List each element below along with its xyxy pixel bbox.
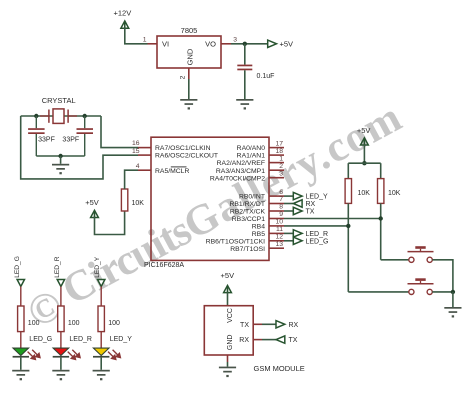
svg-text:7805: 7805 — [181, 26, 198, 35]
power flag +5V (pull-ups) — [357, 126, 371, 146]
pin name RB7/T1OSI — [230, 246, 265, 253]
pin 6 stub RB0 — [269, 189, 284, 196]
wire RX to port — [262, 339, 276, 341]
wire +5V to R4 — [95, 211, 125, 235]
svg-text:33PF: 33PF — [62, 137, 79, 144]
wire TX to port — [262, 323, 276, 325]
decorative watermark (not labelled further) — [18, 93, 412, 337]
pin 12 stub RB6 — [269, 234, 284, 241]
wire crystal top rail — [21, 115, 101, 117]
svg-text:RA2/AN2/VREF: RA2/AN2/VREF — [217, 160, 265, 167]
svg-text:RX: RX — [289, 322, 299, 329]
pin name RB1/RX/DT — [229, 201, 265, 208]
resistor 100 (LED_G) — [18, 306, 40, 332]
pin name RB3/CCP1 — [232, 216, 265, 223]
pin 16 stub RA7 — [132, 140, 151, 147]
svg-text:TX: TX — [240, 322, 249, 329]
svg-text:17: 17 — [275, 140, 283, 147]
node caps ground junction — [58, 154, 62, 158]
wire junction to C1 — [244, 44, 246, 65]
pin name VCC (GSM) — [227, 308, 234, 323]
ground under 7805 — [180, 99, 197, 110]
resistor R3 10K — [378, 179, 401, 204]
wire GSM GND to ground — [227, 362, 229, 367]
pin name RA1/AN1 — [237, 153, 266, 160]
pin 8 stub RB2 — [269, 204, 284, 211]
node RB3 junction — [379, 216, 383, 220]
svg-text:RB6/T1OSO/T1CKI: RB6/T1OSO/T1CKI — [206, 238, 265, 245]
svg-text:4: 4 — [136, 163, 140, 170]
svg-text:10K: 10K — [132, 200, 145, 207]
pin name RA5/MCLR — [155, 167, 189, 175]
wire R to LED_R — [60, 332, 62, 349]
svg-text:RX: RX — [239, 337, 249, 344]
capacitor C2 33PF — [28, 116, 55, 156]
wire LED_R to ground — [60, 358, 62, 370]
pin 17 stub RA0 — [269, 140, 284, 147]
svg-text:10: 10 — [275, 219, 283, 226]
wire pin12 to port — [284, 240, 293, 242]
svg-text:PIC16F628A: PIC16F628A — [144, 262, 184, 269]
pin name RB0/INT — [239, 194, 265, 201]
wire R3 down to button 1 — [380, 203, 382, 259]
regulator U2 7805 — [157, 26, 221, 68]
svg-text:RB1/RX/DT: RB1/RX/DT — [229, 201, 265, 208]
svg-text:+5V: +5V — [280, 40, 294, 49]
power flag +5V (MCLR) — [85, 198, 99, 219]
svg-text:1: 1 — [279, 155, 283, 162]
pin 1 stub of U2 — [143, 37, 157, 44]
ground under C1 — [236, 99, 253, 110]
resistor 100 (LED_R) — [58, 306, 80, 332]
svg-text:RB3/CCP1: RB3/CCP1 — [232, 216, 265, 223]
resistor R2 10K — [345, 179, 370, 204]
label LED_R — [69, 336, 92, 343]
svg-text:CRYSTAL: CRYSTAL — [42, 96, 76, 105]
wire to button 1 left — [381, 259, 409, 261]
ground under GSM — [219, 367, 236, 378]
svg-text:13: 13 — [275, 241, 283, 248]
pin 1 stub RA2 — [269, 155, 284, 162]
svg-text:7: 7 — [279, 196, 283, 203]
port LED_Y — [293, 192, 328, 200]
ground under crystal caps — [52, 164, 69, 175]
svg-text:LED_R: LED_R — [54, 256, 61, 277]
wire OSC1 to pin16 — [101, 116, 138, 148]
pin name TX (GSM) — [240, 322, 249, 329]
power flag +12V — [114, 9, 132, 30]
pin 13 stub RB7 — [269, 241, 284, 248]
wire resistor top rail — [348, 162, 380, 164]
port LED_R — [293, 230, 328, 238]
wire port to R (LED_G) — [20, 287, 22, 307]
pin 15 stub RA6 — [132, 148, 151, 155]
wire LED_Y to ground — [100, 358, 102, 370]
port TX — [293, 207, 314, 215]
svg-text:VI: VI — [162, 40, 169, 49]
wire pin11 to port — [284, 232, 293, 234]
svg-text:RA0/AN0: RA0/AN0 — [237, 145, 266, 152]
svg-text:11: 11 — [276, 226, 283, 233]
node buttons ground junction — [451, 290, 455, 294]
pin 3 stub of U2 — [221, 37, 237, 44]
ground under LED_G — [12, 370, 29, 381]
svg-text:100: 100 — [28, 320, 40, 327]
power flag +5V (GSM) — [221, 271, 235, 294]
pin name RB5 — [252, 231, 265, 238]
ground under LED_Y — [93, 370, 110, 381]
svg-text:TX: TX — [289, 337, 298, 344]
LED D_G — [13, 348, 40, 359]
svg-text:RA5/MCLR: RA5/MCLR — [155, 168, 189, 175]
svg-text:100: 100 — [68, 320, 80, 327]
svg-text:LED_R: LED_R — [306, 231, 329, 238]
wire U2 GND down — [188, 79, 190, 99]
svg-text:RA3/AN3/CMP1: RA3/AN3/CMP1 — [216, 168, 265, 175]
wire R to LED_G — [20, 332, 22, 349]
capacitor C1 0.1uF — [237, 65, 274, 80]
svg-text:6: 6 — [279, 189, 283, 196]
GSM module box — [204, 306, 253, 355]
pin stub GND (GSM) — [227, 355, 229, 362]
pin name RA2/AN2/VREF — [217, 160, 265, 167]
ground under buttons — [444, 307, 461, 318]
ground under LED_R — [52, 370, 69, 381]
svg-text:16: 16 — [132, 140, 140, 147]
svg-text:RB5: RB5 — [252, 231, 265, 238]
svg-text:LED_Y: LED_Y — [110, 336, 133, 343]
node OSC1 junction — [83, 114, 87, 118]
node +5V rail junction — [362, 161, 366, 165]
svg-text:2: 2 — [180, 75, 187, 79]
pin 2 stub of U2 — [180, 68, 189, 79]
svg-text:LED_Y: LED_Y — [94, 256, 101, 277]
port LED_G — [293, 237, 328, 245]
port LED_R (terminal) — [57, 280, 64, 287]
pin name RB2/TX/CK — [230, 209, 266, 216]
svg-text:+12V: +12V — [114, 9, 132, 18]
pin 4 stub RA5 — [136, 163, 151, 170]
svg-text:10K: 10K — [388, 190, 401, 197]
port LED_Y (terminal) — [98, 280, 105, 287]
wire C1 to ground — [244, 70, 246, 99]
svg-text:RX: RX — [306, 201, 316, 208]
node RB4 junction — [346, 224, 350, 228]
wire pin7 to port — [284, 203, 293, 205]
svg-text:LED_G: LED_G — [29, 336, 52, 343]
pin stub RX (GSM) — [253, 339, 262, 341]
wire +12V to 7805 VI — [125, 28, 148, 44]
pin 7 stub RB1 — [269, 196, 284, 203]
pin name RA7/OSC1/CLKIN — [155, 145, 211, 152]
label LED_G — [29, 336, 52, 343]
svg-text:LED_R: LED_R — [69, 336, 92, 343]
svg-text:LED_G: LED_G — [306, 238, 329, 245]
push button S1 — [408, 246, 434, 262]
wire caps bottom rail — [36, 155, 84, 157]
wire VO to +5V — [231, 43, 268, 45]
resistor R4 10K — [121, 189, 144, 211]
svg-text:0.1uF: 0.1uF — [257, 73, 275, 80]
wire to button 2 left — [348, 291, 408, 293]
svg-text:2: 2 — [279, 163, 283, 170]
node junction at C1 — [243, 42, 247, 46]
svg-text:3: 3 — [233, 37, 237, 44]
pin name RA0/AN0 — [237, 145, 266, 152]
wire R4 to pin4 — [125, 170, 138, 189]
svg-text:VCC: VCC — [227, 308, 234, 323]
wire caps rail to ground — [60, 156, 62, 164]
wire LED_G to ground — [20, 358, 22, 370]
wire +5V to GSM VCC — [227, 292, 229, 306]
resistor 100 (LED_Y) — [98, 306, 120, 332]
svg-text:+5V: +5V — [357, 126, 371, 135]
port LED_G (terminal) — [17, 280, 24, 287]
svg-text:LED_G: LED_G — [14, 256, 21, 278]
port label LED_G (net) — [14, 256, 21, 278]
crystal X1 — [40, 109, 77, 124]
wire pin10 RB4 to button 2 branch — [284, 225, 348, 227]
svg-text:RB4: RB4 — [252, 224, 265, 231]
wire R2 down to button 2 — [347, 203, 349, 292]
wire button 1 to ground rail — [432, 260, 453, 292]
svg-text:RA1/AN1: RA1/AN1 — [237, 153, 266, 160]
svg-text:100: 100 — [108, 320, 120, 327]
pin name RA6/OSC2/CLKOUT — [155, 153, 218, 160]
pin name RX (GSM) — [239, 337, 249, 344]
pin 18 stub RA1 — [269, 148, 284, 155]
wire +5V to resistor rail — [363, 145, 365, 164]
svg-text:RA7/OSC1/CLKIN: RA7/OSC1/CLKIN — [155, 145, 211, 152]
port RX (to PIC) — [276, 321, 299, 329]
port label LED_Y (net) — [94, 256, 101, 277]
pin 11 stub RB5 — [269, 226, 284, 233]
wire to ground (buttons) — [452, 292, 454, 307]
wire R to LED_Y — [100, 332, 102, 349]
pin name GND (GSM) — [227, 335, 234, 351]
pin 2 stub RA3 — [269, 163, 284, 170]
svg-text:RB0/INT: RB0/INT — [239, 194, 265, 201]
svg-text:+5V: +5V — [85, 198, 99, 207]
pin 10 stub RB4 — [269, 219, 284, 226]
svg-text:+5V: +5V — [221, 271, 235, 280]
push button S2 — [408, 278, 434, 294]
svg-text:8: 8 — [279, 204, 283, 211]
svg-text:RA4/T0CKI/CMP2: RA4/T0CKI/CMP2 — [210, 175, 265, 182]
svg-text:10K: 10K — [358, 190, 371, 197]
crystal X1 label — [42, 96, 76, 105]
pin 3 stub RA4 — [269, 170, 284, 177]
svg-text:3: 3 — [279, 170, 283, 177]
power flag +5V (output) — [268, 40, 293, 49]
svg-text:18: 18 — [275, 148, 283, 155]
wire port to R (LED_Y) — [100, 287, 102, 307]
pin name RA3/AN3/CMP1 — [216, 168, 265, 175]
label GSM MODULE — [254, 364, 305, 373]
port label LED_R (net) — [54, 256, 61, 277]
svg-text:GSM MODULE: GSM MODULE — [254, 364, 305, 373]
LED D_Y — [93, 348, 120, 359]
svg-text:RA6/OSC2/CLKOUT: RA6/OSC2/CLKOUT — [155, 153, 218, 160]
pin stub TX (GSM) — [253, 323, 262, 325]
svg-text:1: 1 — [143, 37, 147, 44]
pin 9 stub RB3 — [269, 211, 284, 218]
port TX (from PIC) — [276, 336, 298, 344]
node OSC2 junction — [34, 114, 38, 118]
svg-text:12: 12 — [275, 234, 283, 241]
capacitor C3 33PF — [62, 116, 93, 156]
svg-text:GND: GND — [227, 335, 234, 351]
pin name RB4 — [252, 224, 265, 231]
wire OSC2 loop to pin15 — [21, 116, 138, 179]
svg-text:RB7/T1OSI: RB7/T1OSI — [230, 246, 265, 253]
svg-text:15: 15 — [132, 148, 140, 155]
svg-text:GND: GND — [186, 48, 195, 65]
svg-text:LED_Y: LED_Y — [306, 194, 329, 201]
port RX (input) — [293, 200, 315, 208]
pin name RA4/T0CKI/CMP2 — [210, 175, 265, 182]
svg-text:33PF: 33PF — [38, 137, 55, 144]
svg-text:VO: VO — [205, 40, 216, 49]
svg-text:TX: TX — [306, 209, 315, 216]
wire pin9 RB3 to button 1 branch — [284, 218, 381, 220]
microcontroller U1 PIC16F628A box — [144, 137, 269, 269]
wire port to R (LED_R) — [60, 287, 62, 307]
svg-text:9: 9 — [279, 211, 283, 218]
pin name RB6/T1OSO/T1CKI — [206, 238, 265, 245]
wire rail to R3 — [380, 163, 382, 178]
wire pin8 to port — [284, 210, 293, 212]
wire rail to R2 — [347, 163, 349, 178]
LED D_R — [53, 348, 80, 359]
svg-text:RB2/TX/CK: RB2/TX/CK — [230, 209, 266, 216]
wire button 2 to ground rail — [432, 291, 453, 293]
label LED_Y — [110, 336, 133, 343]
wire pin6 to port — [284, 195, 293, 197]
